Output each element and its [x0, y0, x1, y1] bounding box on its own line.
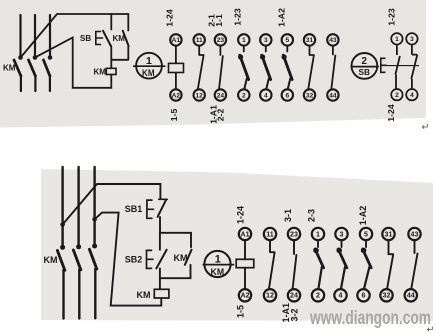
svg-text:4: 4	[410, 92, 414, 99]
svg-text:2: 2	[361, 56, 367, 67]
svg-text:1: 1	[395, 36, 399, 43]
svg-text:↵: ↵	[422, 122, 430, 133]
svg-text:1-A2: 1-A2	[358, 206, 368, 226]
svg-text:5: 5	[364, 230, 368, 238]
svg-text:44: 44	[329, 92, 337, 99]
svg-text:www.diangon.com: www.diangon.com	[309, 308, 431, 329]
svg-text:4: 4	[339, 292, 343, 300]
svg-text:2-3: 2-3	[307, 209, 317, 222]
svg-text:31: 31	[306, 37, 314, 44]
svg-text:A1: A1	[172, 37, 181, 44]
svg-text:12: 12	[266, 292, 274, 300]
svg-text:KM: KM	[174, 253, 188, 263]
svg-text:11: 11	[196, 37, 203, 44]
svg-text:KM: KM	[44, 255, 58, 265]
svg-text:2-2: 2-2	[215, 109, 225, 122]
svg-text:32: 32	[306, 92, 314, 99]
svg-text:3: 3	[410, 36, 414, 43]
svg-text:1: 1	[242, 37, 246, 44]
svg-text:3: 3	[340, 230, 344, 238]
svg-text:1-23: 1-23	[387, 8, 397, 26]
svg-text:1-23: 1-23	[232, 8, 242, 26]
svg-text:1-5: 1-5	[236, 305, 246, 318]
svg-text:↵: ↵	[427, 325, 435, 334]
svg-text:3-1: 3-1	[283, 209, 293, 222]
svg-text:2: 2	[395, 92, 399, 99]
svg-text:KM: KM	[3, 64, 16, 73]
svg-text:1-5: 1-5	[169, 109, 179, 122]
svg-text:3-2: 3-2	[289, 308, 299, 321]
svg-text:1-1: 1-1	[214, 14, 224, 27]
svg-text:1: 1	[316, 230, 320, 238]
svg-text:SB1: SB1	[125, 204, 143, 214]
svg-text:5: 5	[285, 37, 289, 44]
svg-text:A1: A1	[240, 230, 249, 238]
svg-text:KM: KM	[211, 267, 225, 278]
svg-text:SB: SB	[358, 67, 370, 77]
svg-text:1: 1	[215, 253, 221, 265]
svg-text:4: 4	[264, 92, 268, 99]
svg-text:KM: KM	[113, 34, 126, 43]
svg-text:SB: SB	[80, 34, 91, 43]
svg-text:A2: A2	[240, 292, 249, 300]
svg-text:1-A2: 1-A2	[276, 8, 286, 27]
svg-text:SB2: SB2	[125, 255, 143, 265]
svg-text:1-24: 1-24	[386, 104, 396, 122]
svg-text:44: 44	[407, 292, 415, 300]
svg-text:24: 24	[290, 292, 298, 300]
svg-text:A2: A2	[172, 92, 181, 99]
svg-text:32: 32	[383, 292, 391, 300]
svg-text:1-24: 1-24	[236, 206, 246, 224]
svg-text:24: 24	[217, 92, 225, 99]
svg-text:2: 2	[242, 92, 246, 99]
svg-text:6: 6	[285, 92, 289, 99]
svg-text:1-24: 1-24	[164, 9, 174, 27]
svg-text:23: 23	[217, 37, 225, 44]
svg-text:1: 1	[146, 55, 152, 67]
svg-text:KM: KM	[137, 290, 151, 300]
svg-text:43: 43	[411, 230, 419, 238]
svg-text:6: 6	[362, 292, 366, 300]
svg-text:KM: KM	[142, 68, 155, 78]
svg-text:3: 3	[264, 37, 268, 44]
svg-text:31: 31	[385, 230, 393, 238]
svg-text:11: 11	[266, 230, 274, 238]
svg-text:KM: KM	[94, 68, 107, 77]
svg-text:23: 23	[290, 230, 298, 238]
svg-text:43: 43	[329, 37, 337, 44]
svg-text:2: 2	[316, 292, 320, 300]
svg-text:12: 12	[196, 92, 204, 99]
